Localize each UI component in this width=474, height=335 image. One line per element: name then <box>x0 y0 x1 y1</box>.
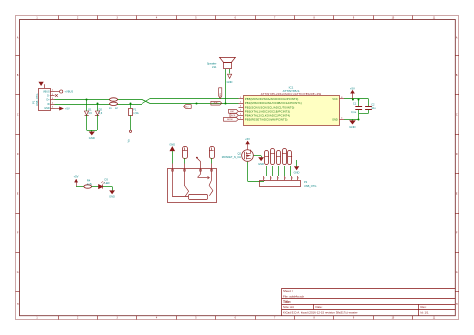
svg-text:4,7k: 4,7k <box>87 182 93 186</box>
svg-text:PB1(MISO/DO/AIN1/OC0B/OC1A/PCI: PB1(MISO/DO/AIN1/OC0B/OC1A/PCINT1) <box>245 101 302 105</box>
svg-text:1: 1 <box>36 317 38 319</box>
svg-text:6: 6 <box>298 178 300 180</box>
svg-text:F: F <box>456 233 458 235</box>
svg-text:P2: P2 <box>304 180 308 184</box>
svg-text:A: A <box>17 36 19 39</box>
svg-text:GND: GND <box>294 171 300 175</box>
svg-text:ISO: ISO <box>185 107 189 109</box>
svg-text:E: E <box>17 193 19 195</box>
svg-text:File: adsb4a.sch: File: adsb4a.sch <box>283 295 304 299</box>
svg-text:5: 5 <box>292 178 294 180</box>
svg-text:2: 2 <box>271 178 273 180</box>
svg-text:B: B <box>17 75 19 77</box>
svg-text:C: C <box>17 115 19 117</box>
svg-text:10u: 10u <box>371 106 376 110</box>
svg-text:3: 3 <box>116 317 118 319</box>
svg-text:PB5(RESET/ADC0/dW/PCINT5): PB5(RESET/ADC0/dW/PCINT5) <box>245 117 288 121</box>
svg-text:PB5(MOSI/DI/SDA/AIN0/OC0A/PCIN: PB5(MOSI/DI/SDA/AIN0/OC0A/PCINT0) <box>245 97 299 101</box>
svg-text:GND: GND <box>258 162 264 166</box>
svg-text:1,5A: 1,5A <box>133 111 139 115</box>
svg-text:SCK: SCK <box>231 115 236 117</box>
svg-text:GND: GND <box>332 118 338 121</box>
svg-text:KiCad E.D.A. kicad (2016-12-1: KiCad E.D.A. kicad (2016-12-15 revision … <box>283 310 358 314</box>
svg-text:RST: RST <box>230 111 235 113</box>
svg-text:USB_OTG: USB_OTG <box>304 184 316 188</box>
svg-text:Size: A4: Size: A4 <box>283 305 294 309</box>
svg-text:Date:: Date: <box>316 305 323 309</box>
svg-text:P1: P1 <box>32 100 36 104</box>
svg-text:C: C <box>456 115 458 117</box>
svg-text:Q2: Q2 <box>238 152 242 156</box>
svg-text:4: 4 <box>156 317 158 319</box>
svg-text:2: 2 <box>77 317 79 319</box>
svg-text:9: 9 <box>353 317 355 319</box>
svg-text:MOSFET_N_CH: MOSFET_N_CH <box>222 155 241 159</box>
svg-text:GND: GND <box>169 142 175 146</box>
svg-text:Sheet: /: Sheet: / <box>283 289 293 293</box>
svg-text:D1: D1 <box>88 107 92 111</box>
svg-text:H: H <box>456 304 458 306</box>
svg-text:3: 3 <box>278 178 280 180</box>
svg-text:USB+: USB+ <box>213 103 220 105</box>
svg-text:Rev:: Rev: <box>421 305 427 309</box>
svg-text:ATTINY85-20SU(SOIC)(ATTINY8520: ATTINY85-20SU(SOIC)(ATTINY85205)-0W <box>261 92 322 96</box>
svg-text:11: 11 <box>433 317 436 319</box>
svg-text:Vu: Vu <box>127 139 131 143</box>
svg-text:6: 6 <box>235 317 237 319</box>
svg-text:GND: GND <box>109 195 115 199</box>
svg-text:+5V: +5V <box>74 175 79 179</box>
svg-text:GND: GND <box>44 107 50 110</box>
svg-text:D-: D- <box>47 95 50 98</box>
svg-text:GND: GND <box>227 80 233 84</box>
svg-text:F: F <box>17 233 19 235</box>
svg-text:2: 2 <box>240 101 242 103</box>
svg-text:G: G <box>17 272 19 274</box>
svg-text:D+: D+ <box>47 99 51 102</box>
svg-text:RES: RES <box>220 92 222 97</box>
svg-text:L1: L1 <box>109 106 112 110</box>
svg-text:MOSI: MOSI <box>227 119 233 121</box>
svg-text:7: 7 <box>274 317 276 319</box>
svg-text:10: 10 <box>392 317 395 319</box>
svg-text:0,1u: 0,1u <box>351 110 357 114</box>
svg-text:GND: GND <box>349 125 355 129</box>
svg-text:G: G <box>456 272 458 274</box>
svg-text:3,6: 3,6 <box>99 111 103 115</box>
svg-text:ID: ID <box>47 103 50 106</box>
svg-text:LS1: LS1 <box>212 65 217 69</box>
svg-text:VBUS: VBUS <box>43 90 50 93</box>
svg-text:8: 8 <box>313 317 315 319</box>
svg-text:E: E <box>456 193 458 195</box>
svg-text:L2: L2 <box>115 106 118 110</box>
svg-text:D: D <box>456 154 458 156</box>
svg-text:VCC: VCC <box>332 98 337 101</box>
svg-text:+5V: +5V <box>65 106 70 110</box>
svg-text:USB_OTG: USB_OTG <box>35 94 39 106</box>
svg-text:+VBUS: +VBUS <box>65 90 74 94</box>
svg-text:A: A <box>456 36 458 39</box>
svg-text:H: H <box>17 304 19 306</box>
svg-text:+5V: +5V <box>245 137 250 141</box>
svg-text:LED: LED <box>105 181 110 185</box>
svg-text:C1: C1 <box>353 102 357 106</box>
svg-text:Title:: Title: <box>283 300 291 304</box>
svg-text:D2: D2 <box>99 107 103 111</box>
svg-text:4: 4 <box>285 178 287 180</box>
svg-text:5: 5 <box>195 317 197 319</box>
svg-text:PB2(SCK/USCK/SCL/ADC1/T0/INT0): PB2(SCK/USCK/SCL/ADC1/T0/INT0) <box>245 105 295 109</box>
svg-text:R4: R4 <box>87 179 91 183</box>
svg-text:Id: 1/1: Id: 1/1 <box>421 310 429 314</box>
svg-text:D: D <box>17 154 19 156</box>
svg-text:+5V: +5V <box>350 86 355 90</box>
svg-text:B: B <box>456 75 458 77</box>
svg-text:1: 1 <box>264 178 266 180</box>
svg-text:3,6: 3,6 <box>88 111 92 115</box>
svg-text:Speaker: Speaker <box>207 62 217 66</box>
svg-text:PB4(XTAL2/CLKO/ADC2/PCINT4): PB4(XTAL2/CLKO/ADC2/PCINT4) <box>245 113 290 117</box>
svg-text:4: 4 <box>52 102 54 104</box>
svg-text:F1: F1 <box>133 108 137 112</box>
svg-text:GND: GND <box>89 136 95 140</box>
svg-text:PB3(XTAL1/ADC3/OC1B/PCINT3): PB3(XTAL1/ADC3/OC1B/PCINT3) <box>245 109 290 113</box>
